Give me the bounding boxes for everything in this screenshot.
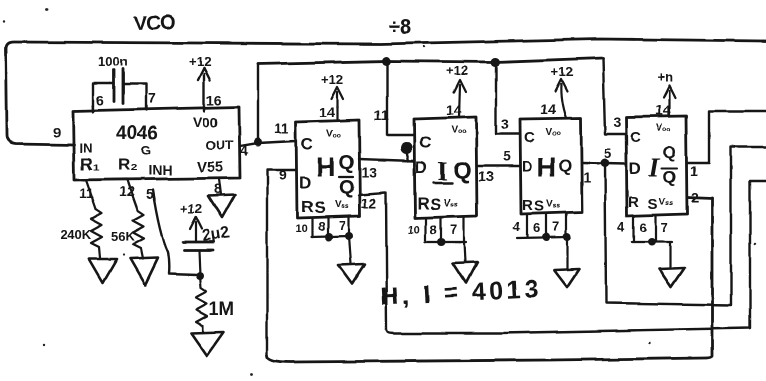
svg-text:C: C [419,133,431,152]
svg-text:S: S [314,198,325,217]
+12 supply arrow FF1 [336,92,338,120]
ground for FF2 [453,262,477,283]
resistor R3 1M zigzag [196,276,207,332]
wire: FF2 bottom bracket [425,241,466,243]
svg-text:R: R [301,197,313,216]
wire: FF4 VSS to ground [669,242,671,268]
resistor R2 56K lead [127,180,138,211]
wire: FF1 bottom bracket [311,236,350,237]
svg-text:+12: +12 [446,63,468,78]
svg-text:C: C [301,135,313,154]
svg-text:1M: 1M [209,299,234,319]
svg-text:H: H [537,152,557,182]
svg-text:Vₛₛ: Vₛₛ [546,199,560,210]
ground for FF1 [338,264,365,284]
+12 supply arrow above C2 [195,222,197,241]
svg-text:R: R [628,194,639,211]
svg-text:V00: V00 [193,114,218,130]
resistor R2 56K zigzag [133,211,144,259]
node: blob at FF2 D entry [400,142,412,154]
wire: tap from FF4 D going down and off-page right [605,147,766,305]
node: FF2 S junction [437,238,445,246]
svg-text:+12: +12 [189,54,211,69]
svg-text:4046: 4046 [116,123,158,144]
FF4 bottom pin stubs [634,215,656,242]
resistor R1 240K lead [86,180,96,209]
svg-text:D: D [299,173,311,192]
wire: 4046 OUT pin 4 to FF1 clock [240,141,296,146]
svg-text:I: I [648,152,661,182]
ground for R1 [89,259,117,283]
wire: bus drop to FF2 clock pin 11 [387,61,414,135]
svg-text:11: 11 [79,185,94,201]
svg-text:100n: 100n [98,54,128,69]
svg-text:7: 7 [450,222,457,237]
svg-text:6: 6 [640,220,647,235]
svg-text:14: 14 [319,104,335,120]
svg-text:Q: Q [339,152,355,174]
svg-text:+12: +12 [321,72,343,87]
svg-text:S: S [534,198,544,215]
svg-text:Vₛₛ: Vₛₛ [335,200,349,211]
svg-text:D: D [629,159,641,178]
node: junction INH/C2/R3 [196,272,204,280]
svg-text:R: R [417,194,429,213]
wire: FF1 VSS to ground [349,236,351,264]
svg-text:+12: +12 [180,201,202,216]
svg-text:I: I [437,156,448,186]
svg-text:D: D [415,158,427,177]
svg-text:Vₛₛ: Vₛₛ [444,198,458,209]
svg-text:11: 11 [374,107,389,123]
svg-text:6: 6 [533,220,540,235]
+12 supply arrow FF4 [668,91,670,116]
svg-text:C: C [524,129,535,146]
svg-text:S: S [648,196,658,213]
wire: FF1 D pin 9 feedback entry [267,170,296,355]
ground for FF3 [554,269,579,287]
svg-text:Vₛₛ: Vₛₛ [659,197,673,208]
svg-text:INH: INH [148,162,172,178]
svg-text:9: 9 [279,167,287,183]
capacitor C1 100n leads [93,83,146,112]
svg-text:8: 8 [318,219,325,234]
IC U1 4046 box [73,107,240,180]
svg-text:10: 10 [295,223,307,235]
svg-text:1: 1 [690,163,698,179]
svg-text:4: 4 [513,219,521,234]
svg-text:4: 4 [618,219,626,234]
node: FF3 junction [542,233,550,241]
svg-text:+n: +n [657,70,673,85]
svg-text:D: D [522,158,533,175]
node: FF3 VSS junction [563,233,571,241]
wire: FF4 Q pin 1 out off-page right [687,111,766,163]
ground for R3 [191,332,224,356]
svg-text:OUT: OUT [206,138,234,153]
node: bus junction to FF2 [382,57,391,66]
svg-text:Q: Q [663,143,676,162]
svg-text:C: C [630,129,641,146]
svg-text:56K: 56K [111,229,135,244]
svg-text:10: 10 [408,224,420,236]
svg-text:16: 16 [206,92,222,108]
wire: VCO IN pin 9 to top rail going off-page right [6,39,766,145]
ground VSS pin 8 stub [219,179,221,195]
svg-text:4: 4 [240,142,248,158]
svg-text:G: G [141,143,151,158]
svg-text:13: 13 [361,164,377,180]
svg-text:2: 2 [691,189,699,205]
svg-text:Vₒₒ: Vₒₒ [656,123,671,134]
wire: FF3 VSS to ground [566,237,568,269]
svg-text:6: 6 [96,92,104,108]
wire INH pin 5 to timing node [153,190,197,275]
svg-text:1: 1 [583,169,591,185]
capacitor C1 plates [114,69,123,103]
flip-flop U2b H box [520,118,582,214]
svg-text:7: 7 [148,90,156,106]
svg-text:3: 3 [613,114,621,130]
wire: clock bus riser [257,64,259,142]
svg-text:8: 8 [430,222,437,237]
svg-text:S: S [430,195,441,214]
node: FF1 VSS junction [345,232,353,240]
flip-flop U3b I box [626,116,687,216]
svg-text:Q: Q [663,167,676,186]
node: FF4 D junction [601,159,610,168]
wire: FF4 bottom bracket [632,241,672,243]
svg-text:÷8: ÷8 [388,16,412,39]
node: clock junction [254,138,262,146]
svg-text:V55: V55 [197,159,224,176]
resistor R1 240K zigzag [91,209,102,258]
node: bus junction to FF3 [491,58,500,67]
+12 supply arrow FF3 [561,84,566,118]
svg-text:Q: Q [453,157,472,184]
ground for VSS [208,195,235,218]
svg-text:14: 14 [540,101,556,117]
svg-text:5: 5 [503,148,511,164]
svg-text:240K: 240K [60,227,92,242]
svg-text:Q: Q [339,177,355,199]
svg-text:7: 7 [552,219,559,234]
svg-text:Q: Q [559,156,572,175]
wire C2 bottom to node [199,250,200,276]
wire: FF2 VSS to ground [464,242,465,262]
+12 supply arrow pin 16 [203,74,205,111]
svg-text:7: 7 [661,220,668,235]
wire: FF1 Qbar run to off-page right [387,181,766,333]
wire: FF2 Q pin 13 to FF3 D pin 5 [477,165,520,167]
wire: bus drop to FF4 clock pin 3 [603,58,626,134]
svg-text:R₂: R₂ [118,155,138,174]
svg-text:5: 5 [146,186,154,202]
svg-text:VCO: VCO [133,12,175,35]
FF1 bottom pin stubs R S VSS [312,216,349,237]
svg-text:12: 12 [119,183,135,199]
node: FF4 junction [648,238,656,246]
svg-text:R₁: R₁ [80,155,99,174]
ground for FF4 [659,268,684,287]
svg-text:Vₒₒ: Vₒₒ [326,129,341,140]
wire: bus drop to FF3 clock pin 3 [496,62,520,134]
svg-text:Vₒₒ: Vₒₒ [546,127,561,138]
svg-text:9: 9 [53,124,61,140]
svg-text:12: 12 [361,195,377,211]
FF2 bottom pin stubs [426,217,464,242]
flip-flop U2a H box [296,120,360,218]
svg-text:11: 11 [274,120,289,136]
wire: FF1 Qbar pin 12 out [359,193,387,330]
wire: FF1 Q pin 13 to FF2 D [359,159,414,161]
svg-text:7: 7 [339,218,346,233]
wire: FF3 Q pin 1 to FF4 D pin 5 [582,163,626,164]
svg-text:+12: +12 [551,64,573,79]
svg-text:Vₒₒ: Vₒₒ [451,125,466,136]
svg-text:IN: IN [79,141,92,156]
wire: FF4 Qbar pin 2 feedback to FF1 D [267,197,712,362]
+12 supply arrow FF2 [459,85,460,117]
wire: clock bus horizontal [258,58,603,64]
wire: FF3 bottom bracket [517,237,568,238]
capacitor C2 2u2 plates [183,242,214,250]
svg-text:13: 13 [478,168,494,184]
ground for R2 [130,258,158,285]
flip-flop U3a I box [414,117,477,218]
svg-text:R: R [522,197,533,214]
svg-text:H: H [316,152,336,182]
node: FF1 S junction [325,233,333,241]
svg-text:3: 3 [501,116,509,132]
FF3 bottom pin stubs [527,213,566,237]
